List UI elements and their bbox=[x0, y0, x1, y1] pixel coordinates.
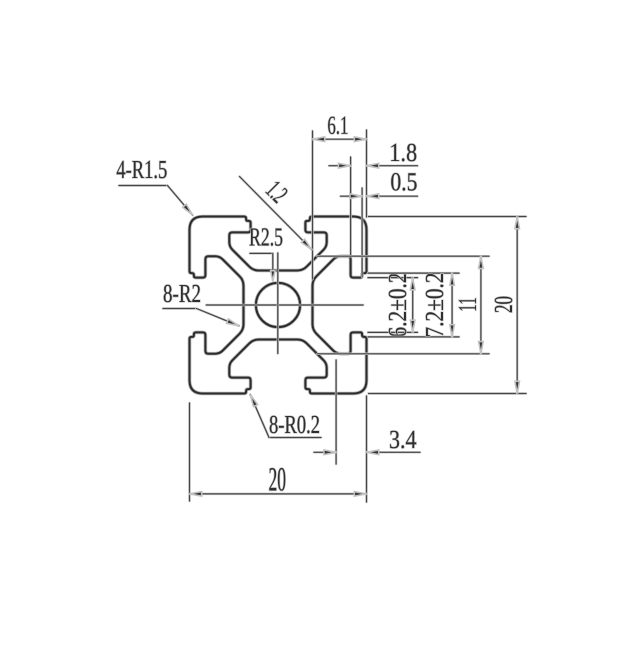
dim 7.2 dimension line bbox=[451, 273, 454, 337]
dim 11 dimension line bbox=[480, 256, 483, 354]
dim 6.2 ext line lower slot opening edge bbox=[368, 331, 418, 334]
dim 20 bottom arrow right bbox=[354, 492, 366, 497]
label 8-R2 leader bbox=[163, 307, 197, 310]
dim 1.8 text bbox=[391, 144, 416, 162]
dim 11 arrow up bbox=[479, 256, 484, 268]
dim 20 right arrow up bbox=[515, 217, 520, 229]
dim 20 right text bbox=[495, 297, 513, 313]
dim 20 right arrow down bbox=[515, 381, 520, 393]
dim 0.5 line with arrow bbox=[367, 195, 418, 198]
dim 6.2 arrow down bbox=[410, 320, 415, 332]
dim 20 bottom text bbox=[269, 468, 285, 491]
dim 3.4 outside arrow left bbox=[314, 451, 336, 454]
dim 0.5 text bbox=[391, 173, 416, 191]
dim 1.8 extension line at lip face bbox=[349, 157, 352, 256]
center bore circle R2.5 bbox=[256, 283, 300, 327]
dim 6.1 dimension line bbox=[313, 138, 367, 141]
label 1.2 text bbox=[265, 182, 287, 204]
dim 7.2 text bbox=[426, 274, 444, 336]
dim 6.1 text bbox=[328, 117, 347, 135]
dim 3.4 line with arrow bbox=[367, 451, 421, 454]
dim 6.1 arrow left bbox=[313, 137, 325, 142]
dim 20 right ext line top bbox=[369, 215, 527, 218]
dim 7.2 arrow down bbox=[450, 325, 455, 337]
dim 3.4 text bbox=[390, 431, 416, 449]
profile outline of 2020 aluminium extrusion cross-section bbox=[190, 217, 367, 394]
dim 7.2 ext line upper notch edge bbox=[368, 272, 459, 275]
dim 11 ext line upper cavity wall bbox=[318, 255, 490, 258]
dim 20 bottom ext line left bbox=[188, 403, 191, 501]
dim 6.1 extension line left from slot floor bbox=[311, 131, 314, 279]
dim 20 right ext line bottom bbox=[369, 392, 527, 395]
label 4-R1.5 text bbox=[117, 161, 167, 179]
label 1.2 leader line bbox=[240, 177, 312, 250]
dim 1.8 line with arrow bbox=[367, 164, 418, 167]
dim 0.5 outside arrow left bbox=[341, 195, 363, 198]
dim 6.2 text bbox=[389, 274, 407, 337]
dim 20 bottom dimension line bbox=[190, 493, 367, 496]
label 8-R0.2 leader bbox=[269, 436, 321, 439]
label 8-R2 text bbox=[164, 285, 200, 303]
dim 6.2 dimension line bbox=[411, 278, 414, 333]
dim 3.4 ext line right at right surface bbox=[365, 396, 368, 502]
dim 11 ext line lower cavity wall bbox=[318, 353, 490, 356]
dim 6.1 extension line right at right surface bbox=[365, 130, 368, 217]
dim 7.2 arrow up bbox=[450, 273, 455, 285]
dim 7.2 ext line lower notch edge bbox=[368, 336, 459, 339]
dim 3.4 ext line left from chamfer start bbox=[335, 360, 338, 464]
label 8-R0.2 text bbox=[270, 416, 319, 434]
dim 11 arrow down bbox=[479, 342, 484, 354]
label R2.5 leader bbox=[250, 252, 273, 255]
vertical centerline bbox=[277, 253, 280, 354]
label 4-R1.5 leader bbox=[119, 184, 168, 187]
dim 6.2 arrow up bbox=[410, 278, 415, 290]
dim 11 text bbox=[459, 298, 476, 310]
label R2.5 text bbox=[250, 228, 283, 246]
dim 1.8 outside arrow left bbox=[329, 164, 351, 167]
dim 6.2 ext line upper slot opening edge bbox=[368, 276, 418, 279]
dim 6.1 arrow right bbox=[354, 137, 366, 142]
dim 0.5 extension line at notch face bbox=[361, 188, 364, 277]
dim 20 right dimension line bbox=[516, 217, 519, 394]
dim 20 bottom arrow left bbox=[190, 492, 202, 497]
horizontal centerline bbox=[206, 304, 363, 307]
